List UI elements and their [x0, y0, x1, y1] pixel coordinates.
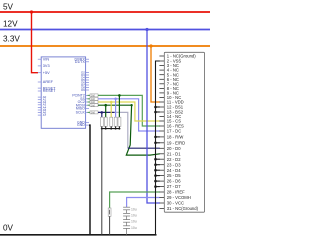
net 3.3V rail: [0, 45, 210, 47]
junction SCLK tap: [101, 111, 104, 114]
mcu U1 right pins: [86, 59, 90, 125]
svg-text:21 - D1: 21 - D1: [167, 151, 181, 156]
wire VSS tap pin26: [156, 180, 160, 182]
wire VSS tap pin13: [156, 111, 160, 113]
resistor R4 series (row 4): [90, 104, 98, 108]
connector J1 body: [164, 52, 204, 212]
net 5V rail: [0, 11, 210, 13]
resistor R2 series (row 2): [90, 97, 98, 101]
svg-text:GND: GND: [77, 123, 85, 127]
junction DC tap: [114, 98, 117, 101]
svg-text:D1/TX: D1/TX: [75, 60, 86, 64]
wire VSS tap pin19: [156, 142, 160, 144]
svg-text:1k0: 1k0: [91, 112, 96, 115]
resistor R6 pulldown: [100, 117, 103, 126]
wire pulldown tap yellow: [110, 102, 112, 117]
wire VCC blue: [147, 30, 160, 204]
wire VSS tap pin12: [156, 106, 160, 108]
resistor R9 pulldown: [114, 117, 117, 126]
svg-text:5V: 5V: [3, 3, 14, 12]
svg-text:10u: 10u: [131, 214, 137, 218]
svg-text:23 - D3: 23 - D3: [167, 162, 181, 167]
svg-text:24 - D4: 24 - D4: [167, 168, 181, 173]
resistor R1 series (row 1): [90, 94, 98, 98]
wire SCLK gray segment: [115, 112, 128, 148]
wire pulldown tap lavender: [115, 99, 117, 117]
junction row4 tap: [104, 104, 107, 107]
svg-text:3.3V: 3.3V: [3, 35, 20, 44]
svg-text:17 - DC: 17 - DC: [167, 129, 181, 134]
svg-text:1k0: 1k0: [91, 104, 96, 107]
svg-text:19 - E/RD: 19 - E/RD: [167, 140, 185, 145]
net 12V rail: [0, 29, 210, 31]
svg-text:SCLK: SCLK: [76, 111, 86, 115]
capacitor C4 10u: [123, 222, 130, 235]
mcu U1 right pin labels: [74, 57, 85, 64]
wire SCLK navy to pin 20: [128, 147, 160, 149]
resistor R8 pulldown: [110, 117, 113, 126]
wire VSS tap pin27: [156, 186, 160, 188]
wire VSS tap pin24: [156, 169, 160, 171]
junction 12V rail: [145, 28, 148, 31]
wire pulldown tap navy: [101, 112, 103, 117]
wire MOSI row dark green: [98, 104, 132, 106]
wire SCLK green nub: [88, 111, 91, 113]
junction RES tap: [118, 94, 121, 97]
svg-text:25 - D5: 25 - D5: [167, 173, 181, 178]
mcu U1 body: [41, 57, 85, 128]
svg-text:10u: 10u: [131, 220, 137, 224]
wire VSS tap pin25: [156, 175, 160, 177]
wire MOSI dark green down to pin 21: [126, 105, 160, 155]
wire pulldown tap dark green: [105, 105, 107, 117]
wire IREF resistor to 0V: [109, 216, 111, 235]
svg-text:A7: A7: [43, 113, 47, 117]
junction 5V rail: [30, 10, 33, 13]
wire ground bus: [102, 128, 120, 130]
resistor R10 IREF: [108, 208, 111, 216]
wire bus to 0V: [101, 129, 103, 235]
mcu U1 left pin labels: [43, 57, 56, 93]
junction CS tap: [110, 101, 113, 104]
svg-text:26 - D6: 26 - D6: [167, 179, 181, 184]
capacitor C1 10u: [123, 207, 130, 210]
net 0V rail: [0, 234, 157, 236]
resistor R3 series (row 3): [90, 101, 98, 105]
wire VCOMH lavender: [127, 198, 160, 208]
svg-text:3V3: 3V3: [43, 64, 50, 68]
svg-text:18 - R/W: 18 - R/W: [167, 135, 184, 140]
svg-text:10u: 10u: [131, 226, 137, 230]
wire VSS chain black: [156, 61, 160, 235]
svg-text:D9: D9: [81, 88, 85, 92]
wire green nubs before series boxes: [88, 95, 91, 105]
wire pulldown tap dark green from RES row: [118, 95, 120, 117]
svg-text:+5V: +5V: [43, 71, 50, 75]
svg-text:30 - VCC: 30 - VCC: [167, 201, 184, 206]
wire pulldown leads to bus: [102, 126, 120, 128]
svg-text:27 - D7: 27 - D7: [167, 184, 181, 189]
svg-text:31 - NC(Ground): 31 - NC(Ground): [167, 206, 199, 211]
svg-text:29 - VCOMH: 29 - VCOMH: [167, 195, 191, 200]
connector J1 pin labels: [167, 54, 199, 212]
svg-text:RESET: RESET: [43, 89, 56, 93]
wire DC lavender to pin 17: [98, 99, 160, 131]
mcu U1 left pins: [38, 59, 41, 115]
svg-text:28 - IREF: 28 - IREF: [167, 190, 185, 195]
connector J1 pin stubs: [159, 56, 164, 209]
wire VDD orange: [151, 46, 160, 102]
resistor R7 pulldown: [104, 117, 107, 126]
wire VSS tap pin22: [156, 158, 160, 160]
svg-text:AREF: AREF: [43, 80, 54, 84]
wire CS yellow to pin 15: [98, 102, 160, 121]
wire SCLK navy row: [98, 111, 115, 113]
wire VSS tap pin23: [156, 164, 160, 166]
capacitor C3 10u: [123, 216, 130, 222]
junction VSS dots: [154, 106, 157, 188]
junction 3.3V rail: [149, 44, 152, 47]
wire RES green to pin 16: [98, 95, 160, 126]
junction bus dots: [101, 128, 103, 130]
resistor R5 series (SCLK row): [90, 111, 98, 115]
svg-text:VIN: VIN: [43, 57, 50, 61]
svg-text:20 - D0: 20 - D0: [167, 146, 181, 151]
svg-text:10u: 10u: [131, 207, 137, 211]
svg-text:0V: 0V: [3, 224, 14, 233]
wire GND to 0V: [89, 125, 90, 235]
wire IREF green: [110, 192, 160, 208]
wire VSS tap pin18: [156, 136, 160, 138]
wire 5V to +5V pin: [32, 12, 39, 73]
svg-text:12V: 12V: [3, 20, 18, 29]
resistor R10 pulldown: [118, 117, 121, 126]
svg-text:22 - D2: 22 - D2: [167, 157, 181, 162]
capacitor C2 10u: [123, 210, 130, 216]
